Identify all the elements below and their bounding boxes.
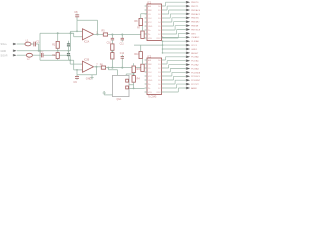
wire rail VREF: [40, 32, 74, 34]
capacitor C11: [121, 38, 124, 40]
wire C3 top stub: [68, 41, 70, 44]
svg-text:VCC: VCC: [148, 76, 153, 78]
junction ladder mid: [112, 51, 114, 53]
connector pin SV1-10: [186, 36, 190, 38]
wire feedback U1A: [77, 20, 98, 34]
junction chain mid: [133, 73, 135, 75]
wire IC2 pin3 to SV1-17: [164, 65, 186, 68]
pin IC2 left 6: [145, 79, 147, 81]
capacitor C8: [75, 15, 79, 17]
junction riser SV1-11: [162, 40, 164, 42]
junction feedback tap: [76, 30, 78, 32]
svg-text:C7: C7: [40, 52, 44, 55]
junction R1-rail: [57, 32, 59, 34]
svg-text:D7: D7: [158, 34, 160, 36]
wire vertical bias: [39, 33, 41, 60]
wire out1 filter: [108, 34, 141, 36]
wire C11 stub: [121, 35, 123, 39]
wire riser to SV1-11: [163, 40, 186, 42]
wire riser to SV1-14: [163, 52, 186, 54]
pin pad QG1 vcc: [126, 86, 129, 89]
svg-text:IN-: IN-: [148, 34, 151, 36]
wire IC2 pin2 to SV1-16: [164, 61, 186, 64]
connector pin SV1-1: [186, 1, 190, 3]
connector pin SV1-9: [186, 32, 190, 34]
wire U1B out: [94, 66, 102, 68]
junction riser SV1-12: [162, 44, 164, 46]
wire row1 a: [17, 43, 25, 45]
wire ladder bottom: [111, 59, 113, 68]
junction riser SV1-13: [162, 48, 164, 50]
pin IC1 left 5: [145, 21, 147, 23]
svg-text:QG1: QG1: [117, 99, 123, 101]
wire signal riser 2: [69, 55, 71, 64]
svg-text:R4: R4: [137, 78, 141, 81]
connector pin SV1-21: [186, 79, 190, 81]
pin IC1 left 9: [145, 37, 147, 39]
junction riser SV1-10: [162, 37, 164, 39]
wire out2 filter: [106, 67, 141, 69]
wire R2 bottom stub: [57, 58, 59, 60]
svg-text:VCC1: VCC1: [191, 45, 198, 47]
svg-text:PC3/A3: PC3/A3: [191, 67, 199, 70]
svg-text:CS/ADC: CS/ADC: [191, 36, 200, 39]
wire riser to SV1-13: [163, 48, 186, 50]
wire feedback U1B: [77, 67, 97, 75]
wire C12 tail: [121, 55, 123, 57]
connector pin SV1-15: [186, 56, 190, 58]
wire row1 c: [36, 43, 39, 45]
svg-text:D6: D6: [158, 84, 160, 86]
resistor R4: [132, 76, 135, 83]
wire R3 stubs: [133, 63, 135, 75]
svg-text:D0: D0: [158, 60, 160, 62]
oscillator QG1: [113, 75, 130, 96]
svg-text:D0: D0: [158, 6, 160, 8]
IC IC2: [147, 58, 162, 95]
wire row3 a: [17, 54, 26, 56]
junction QG1 tap: [107, 67, 109, 69]
svg-text:IC2A: IC2A: [84, 40, 90, 43]
svg-text:RESET: RESET: [191, 53, 199, 55]
wire ladder link: [111, 50, 113, 52]
svg-text:D5: D5: [158, 26, 160, 28]
svg-text:D1: D1: [158, 64, 160, 66]
ground GND2: [103, 92, 106, 95]
pin IC2 right 1: [162, 59, 165, 61]
pin IC2 right 2: [162, 63, 165, 65]
wire IC1 pin1 to SV1-1: [164, 2, 186, 6]
wire IC1 pin4 to SV1-4: [164, 14, 186, 18]
junction row1-row2: [38, 50, 40, 52]
svg-text:PB1/T1: PB1/T1: [191, 6, 199, 8]
svg-text:IC1: IC1: [147, 0, 152, 4]
pin IC2 left 9: [145, 91, 147, 93]
svg-text:GND1: GND1: [191, 49, 198, 51]
connector pad X1-2: [13, 50, 17, 52]
resistor R9: [141, 64, 144, 71]
svg-text:R7: R7: [137, 28, 141, 30]
svg-text:PB0/T0: PB0/T0: [191, 2, 199, 4]
svg-text:D3: D3: [158, 72, 160, 74]
pin IC2 right 7: [162, 83, 165, 85]
svg-text:IN-: IN-: [148, 88, 151, 90]
svg-text:R5: R5: [102, 30, 106, 33]
wire bus riser mid: [162, 41, 164, 53]
pin IC2 left 2: [145, 63, 147, 65]
wire row1 b: [31, 43, 33, 45]
wire QG1 clk out: [129, 87, 145, 89]
junction clk: [133, 88, 135, 90]
svg-text:PB6/MI: PB6/MI: [191, 26, 199, 28]
wire row2: [17, 50, 71, 52]
resistor R5: [103, 33, 107, 36]
svg-text:PB2/AC0: PB2/AC0: [191, 9, 200, 12]
pin IC1 left 6: [145, 25, 147, 27]
connector pin SV1-18: [186, 67, 190, 69]
wire C3 bottom stub: [68, 46, 70, 51]
junction fb-out: [97, 33, 99, 35]
wire R10 up: [140, 45, 142, 52]
svg-text:GND: GND: [86, 77, 92, 80]
resistor R12 ladder: [111, 53, 114, 59]
pin pad QG1 out: [126, 79, 129, 82]
ground GND1: [90, 75, 93, 79]
junction C11 tap: [121, 34, 123, 36]
svg-text:C1: C1: [36, 41, 40, 44]
wire jog row1 to row2: [38, 44, 40, 51]
resistor R7: [141, 31, 144, 38]
wire IC2 pin8 to SV1-22: [164, 84, 186, 88]
wire row3 c: [44, 54, 71, 56]
wire IC2 pin9 to SV1-23: [164, 88, 186, 92]
svg-text:IC2B: IC2B: [84, 59, 90, 61]
svg-text:R3: R3: [137, 68, 141, 71]
svg-text:SIG-L: SIG-L: [1, 43, 8, 46]
pin IC2 right 6: [162, 79, 165, 81]
svg-text:AREF: AREF: [191, 87, 197, 90]
svg-text:C12: C12: [120, 53, 125, 55]
svg-text:R8: R8: [134, 20, 138, 23]
wire R1 top stub: [57, 33, 59, 41]
pin IC1 left 3: [145, 13, 147, 15]
wire QG1 gnd: [104, 94, 112, 96]
svg-text:PC2/A2: PC2/A2: [191, 64, 199, 67]
svg-text:PB5/MO: PB5/MO: [191, 22, 200, 24]
connector pin SV1-4: [186, 13, 190, 15]
pin IC2 left 4: [145, 71, 147, 73]
pin IC1 right 6: [162, 25, 165, 27]
svg-text:PB4/SS: PB4/SS: [191, 18, 199, 20]
junction C10 tap: [111, 34, 113, 36]
wire rail to IN+ 2: [74, 60, 83, 70]
resistor R6: [101, 66, 105, 69]
inductor L2: [26, 53, 32, 57]
pin IC1 right 4: [162, 17, 165, 19]
svg-text:D7: D7: [158, 88, 160, 90]
connector pin SV1-6: [186, 21, 190, 23]
svg-text:R2: R2: [52, 54, 56, 57]
junction riser SV1-14: [162, 52, 164, 54]
wire to IN- U1A: [71, 30, 83, 32]
wire R1 bottom stub: [57, 48, 59, 50]
connector pin SV1-13: [186, 48, 190, 50]
svg-text:IC2: IC2: [147, 54, 152, 58]
wire IC1 pin6 to SV1-6: [164, 22, 186, 26]
svg-text:R10: R10: [134, 53, 139, 56]
svg-text:D2: D2: [158, 68, 160, 70]
resistor R3: [132, 66, 135, 73]
capacitor C1: [34, 42, 36, 47]
wire R4 bottom: [129, 82, 134, 88]
svg-text:D4: D4: [158, 22, 160, 24]
wire row3 b: [33, 54, 41, 56]
pin IC1 right 3: [162, 13, 165, 15]
wire R7-R8 link: [142, 26, 144, 31]
wire C10 lower stub: [111, 40, 113, 44]
pin IC2 left 1: [145, 59, 147, 61]
capacitor C2: [41, 53, 43, 57]
connector pin SV1-2: [186, 5, 190, 7]
connector pin SV1-17: [186, 63, 190, 65]
connector pin SV1-12: [186, 44, 190, 46]
resistor R10: [139, 52, 142, 59]
junction ladder-out2: [111, 67, 113, 69]
svg-text:PC0/A0: PC0/A0: [191, 56, 199, 59]
capacitor C12: [121, 57, 124, 59]
wire QG1 top tap: [108, 68, 117, 76]
pin IC1 right 2: [162, 9, 165, 11]
wire to IN- U1B: [70, 63, 82, 65]
svg-text:PB3/AC1: PB3/AC1: [191, 13, 200, 16]
junction bias-row2: [39, 50, 41, 52]
capacitor C4 polarized: [67, 54, 70, 56]
wire IC1 pin5 to SV1-5: [164, 18, 186, 22]
pin IC1 left 7: [145, 29, 147, 31]
wire U1A out: [94, 33, 104, 35]
pin IC1 right 1: [162, 5, 165, 7]
svg-text:D2: D2: [158, 14, 160, 16]
pin IC1 right 7: [162, 29, 165, 31]
capacitor C10: [111, 38, 114, 40]
svg-text:D6: D6: [158, 30, 160, 32]
connector pin SV1-7: [186, 24, 190, 26]
svg-text:C9: C9: [73, 80, 77, 84]
pin IC2 right 9: [162, 91, 165, 93]
wire IC1 pin3 to SV1-3: [164, 10, 186, 14]
op-amp U1A: [83, 29, 94, 40]
connector pin SV1-5: [186, 17, 190, 19]
svg-text:PC5/SCL: PC5/SCL: [191, 76, 200, 78]
pin IC1 left 8: [145, 33, 147, 35]
connector pin SV1-14: [186, 52, 190, 54]
wire signal riser: [70, 31, 72, 50]
svg-text:D1: D1: [158, 10, 160, 12]
wire riser to SV1-12: [163, 44, 186, 46]
resistor R1: [56, 41, 59, 48]
pin IC1 right 5: [162, 21, 165, 23]
pin IC2 right 5: [162, 75, 165, 77]
pin IC2 left 3: [145, 67, 147, 69]
svg-text:D3: D3: [158, 18, 160, 20]
wire mid to IC1: [134, 44, 163, 46]
wire IC1 pin8 to SV1-8: [164, 30, 186, 35]
wire riser to SV1-10: [163, 36, 186, 38]
svg-text:PC6/RST: PC6/RST: [191, 80, 200, 82]
resistor R8: [139, 18, 142, 25]
resistor R11 ladder: [111, 44, 114, 50]
pin IC2 right 4: [162, 71, 165, 73]
capacitor C3 polarized: [67, 44, 70, 46]
wire C11 tail: [121, 40, 123, 42]
svg-text:GND: GND: [148, 26, 153, 28]
pin IC1 left 4: [145, 17, 147, 19]
svg-text:PC1/A1: PC1/A1: [191, 60, 199, 63]
connector pin SV1-22: [186, 83, 190, 85]
wire R9-R10 link: [142, 59, 144, 65]
wire R8 to pin: [141, 14, 147, 19]
wire IC2 pin5 to SV1-19: [164, 72, 186, 76]
junction C3-row2: [68, 50, 70, 52]
svg-text:INT0: INT0: [191, 33, 197, 35]
svg-text:PB7/SCK: PB7/SCK: [191, 29, 200, 31]
svg-text:D5: D5: [158, 80, 160, 82]
pin IC2 left 5: [145, 75, 147, 77]
pin IC1 left 2: [145, 9, 147, 11]
pin IC1 right 8: [162, 33, 165, 35]
junction fb-out 2: [96, 66, 98, 68]
wire IC1 pin9 to SV1-9: [164, 33, 186, 38]
resistor R2: [56, 53, 59, 59]
pin IC2 left 8: [145, 87, 147, 89]
connector pad X1-1: [13, 43, 17, 45]
svg-text:TLC545: TLC545: [148, 96, 157, 99]
pin IC2 right 8: [162, 87, 165, 89]
wire IC2 pin1 to SV1-15: [164, 57, 186, 60]
svg-text:VCC: VCC: [148, 22, 153, 24]
op-amp U1B: [83, 61, 94, 72]
svg-text:R1: R1: [52, 43, 56, 46]
connector pin SV1-16: [186, 60, 190, 62]
wire C12 stub: [121, 58, 123, 67]
svg-text:C11: C11: [120, 43, 125, 45]
wire C10 stub: [111, 35, 113, 39]
svg-text:SIG-R: SIG-R: [1, 55, 8, 58]
svg-text:GND: GND: [1, 50, 7, 53]
svg-text:C10: C10: [107, 43, 112, 45]
wire IC2 pin6 to SV1-20: [164, 76, 186, 80]
wire IC1 pin7 to SV1-7: [164, 26, 186, 30]
svg-text:CLK/AD: CLK/AD: [191, 40, 199, 43]
svg-text:D4: D4: [158, 76, 160, 78]
wire IC2 pin4 to SV1-18: [164, 69, 186, 73]
connector pin SV1-20: [186, 75, 190, 77]
connector pin SV1-3: [186, 9, 190, 11]
connector pin SV1-8: [186, 28, 190, 30]
connector pin SV1-19: [186, 71, 190, 73]
junction riser-rail: [70, 32, 72, 34]
wire rail to IN+: [71, 33, 83, 37]
wire IC1 pin2 to SV1-2: [164, 6, 186, 10]
wire QG1 mid: [126, 74, 133, 75]
junction R1-row2: [57, 50, 59, 52]
junction feedback tap 2: [76, 69, 78, 71]
svg-text:PC7/XT: PC7/XT: [191, 84, 199, 86]
junction C12 tap: [121, 67, 123, 69]
svg-text:PC4/SDA: PC4/SDA: [191, 71, 200, 74]
wire IC2 pin7 to SV1-21: [164, 80, 186, 84]
svg-text:GND: GND: [148, 80, 153, 82]
wire rail lower: [40, 59, 74, 61]
connector pin SV1-11: [186, 40, 190, 42]
IC IC1: [147, 4, 162, 41]
pin IC2 right 3: [162, 67, 165, 69]
connector pad X1-3: [13, 54, 17, 56]
inductor L1: [25, 42, 31, 46]
pin IC1 left 1: [145, 5, 147, 7]
pin IC2 left 7: [145, 83, 147, 85]
connector pin SV1-23: [186, 87, 190, 89]
pin IC1 right 9: [162, 37, 165, 39]
junction riser2-rail: [69, 59, 71, 61]
svg-text:C8: C8: [74, 10, 78, 14]
wire C4 stubs: [68, 51, 70, 61]
wire C9 stub: [76, 75, 78, 80]
wire C8 stub: [76, 14, 78, 21]
capacitor C9: [75, 76, 79, 78]
